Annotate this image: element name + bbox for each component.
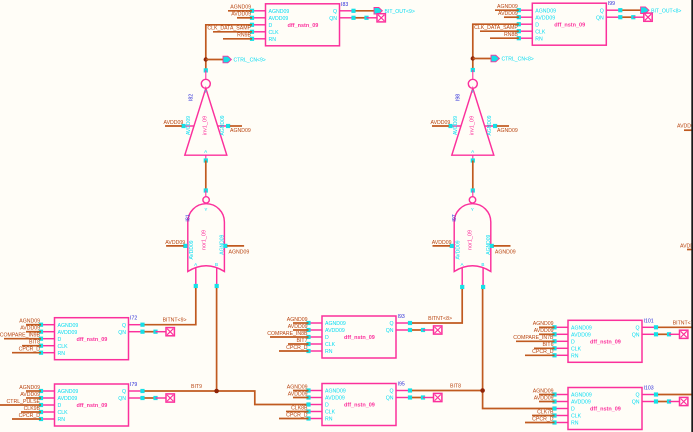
svg-text:BIT7: BIT7 [297, 338, 308, 344]
svg-text:AVDD09: AVDD09 [269, 16, 289, 22]
svg-text:AGND09: AGND09 [287, 317, 308, 323]
svg-text:AGND09: AGND09 [19, 319, 40, 325]
svg-text:RN: RN [58, 417, 66, 423]
flip-flop I99 (dff_nstn_09) [519, 3, 621, 45]
power pin AVDD09 of NOR I81 [165, 240, 187, 248]
flip-flop I93 (dff_nstn_09) [309, 316, 411, 358]
wire stub net COMPARE_IN9B to I72 pin D [0, 333, 41, 339]
wire stub net RN8B to I99 pin RN [490, 32, 519, 38]
wire stub net CTRL_PULSE to I79 pin D [0, 399, 41, 405]
wire stub net AGND09 to I99 pin AGND09 [495, 4, 519, 10]
wire stub net AVDD09 to I101 pin AVDD09 [534, 328, 555, 334]
svg-text:AVDD09: AVDD09 [288, 391, 308, 397]
NOR gate I97 (nor1_09) [452, 197, 492, 286]
pin BIT_OUT<8> (output pin) [641, 7, 682, 14]
svg-text:Q: Q [333, 9, 337, 15]
svg-text:Y: Y [204, 207, 207, 212]
wire stub net AVDD09 to I99 pin AVDD09 [498, 11, 519, 17]
wire net BIT7: I103.Q toward off-canvas [658, 394, 693, 396]
noConn symbol on I72 QN [145, 328, 175, 336]
svg-text:QN: QN [386, 328, 394, 334]
svg-text:AVDD09: AVDD09 [231, 12, 251, 18]
svg-text:dff_nstn_09: dff_nstn_09 [590, 340, 621, 346]
svg-text:I83: I83 [341, 2, 348, 8]
svg-text:CLK: CLK [325, 342, 336, 348]
svg-text:AVDD09: AVDD09 [20, 392, 40, 398]
svg-text:AGND09: AGND09 [220, 115, 226, 135]
svg-text:Y: Y [471, 89, 474, 94]
wire stub net CLK8B to I95 pin CLK [286, 405, 309, 411]
svg-text:AVDD09: AVDD09 [534, 328, 554, 334]
svg-text:BIT6: BIT6 [543, 342, 554, 348]
pin squares of I103 [552, 392, 658, 424]
flip-flop I103 (dff_nstn_09) [555, 388, 657, 430]
svg-text:AVDD09: AVDD09 [677, 124, 693, 130]
svg-text:AVDD09: AVDD09 [534, 395, 554, 401]
svg-text:AGND09: AGND09 [325, 389, 346, 395]
instance label I101 [644, 318, 654, 324]
svg-text:I93: I93 [398, 314, 405, 320]
svg-text:CLK: CLK [325, 410, 336, 416]
wire net CTRL_CN<8>: I99.D down to inverter I98 input [473, 24, 519, 70]
svg-text:I81: I81 [186, 214, 192, 221]
wire stub net BIT8 to I72 pin CLK [22, 340, 41, 346]
pin squares NOR I81 inputs [194, 284, 219, 288]
wire stub net CPCR_D to I101 pin RN [525, 349, 555, 355]
svg-text:CLK_DATA_SAMP: CLK_DATA_SAMP [207, 26, 251, 32]
junction node BIT9 [214, 389, 219, 394]
wire stub net RN9B to I83 pin RN [223, 33, 252, 39]
svg-text:RN: RN [325, 349, 333, 355]
svg-text:Q: Q [389, 389, 393, 395]
wire stub net CPCR_D to I72 pin RN [12, 347, 41, 353]
svg-text:I82: I82 [188, 94, 194, 101]
wire I99.Q to output pin BIT_OUT<8> [622, 9, 640, 11]
pin CTRL_CN<8> (output pin) [473, 55, 534, 63]
svg-text:BIT8: BIT8 [450, 383, 461, 389]
power pin AVDD09 of inverter I98 [431, 120, 453, 128]
svg-text:AVDD09: AVDD09 [20, 326, 40, 332]
svg-text:AVDD09: AVDD09 [455, 240, 461, 259]
power pin AVDD09 of NOR I97 [432, 240, 454, 248]
pin CTRL_CN<9> (output pin) [206, 56, 266, 64]
wire stub net BIT6 to I101 pin CLK [534, 342, 555, 348]
svg-text:CLK7B: CLK7B [537, 409, 554, 415]
svg-text:nor1_09: nor1_09 [201, 230, 207, 250]
svg-text:nor1_09: nor1_09 [468, 230, 474, 250]
wire stub net COMPARE_IN7B to I101 pin D [513, 335, 554, 341]
svg-text:CPCR_D: CPCR_D [532, 349, 554, 355]
wire stub net AGND09 to I101 pin AGND09 [533, 321, 555, 327]
svg-text:dff_nstn_09: dff_nstn_09 [344, 403, 375, 409]
pin squares of I101 [552, 325, 658, 357]
pin squares of I95 [306, 388, 412, 420]
flip-flop I79 (dff_nstn_09) [41, 384, 143, 426]
svg-text:dff_nstn_09: dff_nstn_09 [590, 407, 621, 413]
svg-text:RN9B: RN9B [237, 33, 251, 39]
inverter I82 (inv1_09) [184, 79, 229, 155]
svg-text:BIT_OUT<9>: BIT_OUT<9> [385, 9, 415, 15]
wire stub net AGND09 to I95 pin AGND09 [287, 384, 309, 390]
junction node BIT8 [480, 388, 485, 393]
svg-text:I101: I101 [644, 318, 654, 324]
flip-flop I83 (dff_nstn_09) [252, 4, 354, 46]
noConn symbol on I103 QN [658, 397, 688, 405]
svg-text:RN: RN [325, 417, 333, 423]
svg-text:AGND09: AGND09 [58, 389, 79, 395]
svg-text:RN: RN [571, 421, 579, 427]
power pin AGND09 of inverter I98 [493, 124, 518, 134]
svg-text:AVDD09: AVDD09 [498, 11, 518, 17]
pin squares of I99 [517, 8, 623, 40]
svg-text:CPCR_D: CPCR_D [286, 412, 308, 418]
wire stub net BIT7 to I93 pin CLK [288, 338, 309, 344]
noConn symbol on I83 QN [356, 14, 386, 22]
svg-text:RN: RN [535, 36, 543, 42]
wire net BIT9: I79.Q to NOR I81 input B and to I95.D [145, 288, 309, 405]
junction node CTRL_CN<9> [204, 57, 208, 61]
instance label I72 [130, 316, 137, 322]
flip-flop I95 (dff_nstn_09) [309, 384, 411, 426]
power pin AVDD09 of off-canvas NOR (cut at right edge) [680, 244, 693, 250]
svg-text:AVDD09: AVDD09 [571, 400, 591, 406]
pin squares NOR I97 inputs [460, 285, 485, 289]
noConn symbol on I93 QN [412, 326, 442, 334]
flip-flop I72 (dff_nstn_09) [41, 318, 143, 360]
instance label I81 [186, 214, 192, 221]
svg-text:AGND09: AGND09 [230, 5, 251, 11]
power pin AGND09 of NOR I81 [223, 244, 249, 256]
svg-text:AVDD09: AVDD09 [453, 116, 459, 135]
svg-text:AGND09: AGND09 [229, 250, 250, 256]
svg-text:AGND09: AGND09 [497, 128, 518, 134]
svg-text:AVDD09: AVDD09 [58, 330, 78, 336]
noConn symbol on I79 QN [145, 394, 175, 402]
wire stub net AGND09 to I103 pin AGND09 [533, 388, 555, 394]
svg-text:AVDD09: AVDD09 [432, 240, 452, 246]
svg-text:B: B [481, 262, 484, 267]
svg-text:I103: I103 [644, 386, 654, 392]
inverter I98 (inv1_09) [451, 79, 496, 155]
svg-text:QN: QN [386, 396, 394, 402]
svg-text:CLK: CLK [58, 344, 69, 350]
pin BIT_OUT<9> (output pin) [374, 8, 415, 16]
svg-text:BITNT<8>: BITNT<8> [428, 316, 452, 322]
svg-text:QN: QN [118, 330, 126, 336]
svg-text:AVDD09: AVDD09 [189, 240, 195, 259]
window edge [691, 0, 693, 432]
svg-text:dff_nstn_09: dff_nstn_09 [288, 23, 319, 29]
instance label I79 [130, 382, 137, 388]
svg-text:CTRL_CN<8>: CTRL_CN<8> [502, 57, 534, 63]
pin squares of I83 [250, 9, 356, 41]
svg-text:BIT9: BIT9 [191, 384, 202, 390]
svg-text:I97: I97 [452, 214, 458, 221]
svg-text:AVDD09: AVDD09 [325, 328, 345, 334]
svg-text:QN: QN [596, 15, 604, 21]
svg-text:AGND09: AGND09 [325, 321, 346, 327]
wire net BITNT<8>: I93.Q up to NOR I97 input A [412, 289, 462, 323]
svg-text:D: D [269, 23, 273, 29]
svg-text:AGND09: AGND09 [571, 326, 592, 332]
svg-text:AGND09: AGND09 [571, 393, 592, 399]
svg-text:AVDD09: AVDD09 [571, 333, 591, 339]
svg-text:AGND09: AGND09 [230, 128, 251, 134]
wire net CTRL_CN<9>: I83.D down to inverter I82 input [206, 25, 252, 71]
svg-text:COMPARE_IN7B: COMPARE_IN7B [513, 335, 554, 341]
svg-text:RN8B: RN8B [504, 32, 518, 38]
junction node CTRL_CN<8> [471, 56, 475, 60]
wire stub net CLK7B to I103 pin CLK [532, 409, 555, 415]
svg-text:D: D [58, 403, 62, 409]
svg-text:BIT8: BIT8 [29, 340, 40, 346]
svg-text:RN: RN [58, 351, 66, 357]
svg-text:Q: Q [389, 321, 393, 327]
svg-text:AGND09: AGND09 [535, 8, 556, 14]
svg-text:CTRL_CN<9>: CTRL_CN<9> [234, 58, 266, 64]
svg-text:D: D [571, 340, 575, 346]
svg-text:dff_nstn_09: dff_nstn_09 [77, 403, 108, 409]
svg-text:I72: I72 [130, 316, 137, 322]
svg-text:AGND09: AGND09 [495, 250, 516, 256]
wire net BITNT<7>: I101.Q toward NOR off-canvas [658, 320, 693, 327]
power pin AVDD09 of off-canvas inverter (cut at right edge) [677, 124, 693, 131]
NOR gate I81 (nor1_09) [185, 197, 225, 286]
svg-text:Q: Q [122, 389, 126, 395]
svg-text:BITNT<7>: BITNT<7> [673, 320, 693, 326]
wire stub net CPCR_D to I93 pin RN [279, 345, 309, 351]
svg-text:D: D [58, 337, 62, 343]
wire stub net AGND09 to I72 pin AGND09 [19, 319, 41, 325]
svg-text:inv1_09: inv1_09 [202, 116, 208, 135]
svg-text:I79: I79 [130, 382, 137, 388]
svg-text:D: D [325, 403, 329, 409]
noConn symbol on I99 QN [622, 13, 652, 21]
pin squares of I72 [39, 323, 145, 355]
wire stub net AVDD09 to I79 pin AVDD09 [20, 392, 41, 398]
wire stub net AVDD09 to I95 pin AVDD09 [288, 391, 309, 397]
svg-text:D: D [535, 22, 539, 28]
svg-text:dff_nstn_09: dff_nstn_09 [77, 337, 108, 343]
svg-text:CLK: CLK [58, 410, 69, 416]
svg-text:QN: QN [118, 396, 126, 402]
svg-text:AVDD09: AVDD09 [58, 396, 78, 402]
wire net BIT8: I95.Q to NOR I97 input B and to I103.D [412, 289, 555, 409]
svg-text:CLK8B: CLK8B [291, 405, 308, 411]
instance label I82 [188, 94, 194, 101]
wire stub net AVDD09 to I83 pin AVDD09 [231, 12, 252, 18]
svg-text:Y: Y [471, 207, 474, 212]
svg-text:AVDD09: AVDD09 [164, 120, 184, 126]
wire stub net AGND09 to I79 pin AGND09 [19, 385, 41, 391]
wire inverter I98 output to NOR I97 [471, 155, 475, 197]
svg-text:Q: Q [635, 326, 639, 332]
svg-text:Q: Q [635, 393, 639, 399]
wire stub net AGND09 to I83 pin AGND09 [228, 5, 252, 11]
svg-text:QN: QN [632, 400, 640, 406]
svg-text:I98: I98 [455, 94, 461, 101]
svg-text:CPCR_D: CPCR_D [286, 345, 308, 351]
pin square inverter I82 output wire [204, 68, 208, 72]
power pin AGND09 of inverter I82 [226, 124, 251, 134]
svg-text:COMPARE_IN8B: COMPARE_IN8B [267, 331, 308, 337]
wire stub net AVDD09 to I93 pin AVDD09 [288, 324, 309, 330]
svg-text:dff_nstn_09: dff_nstn_09 [554, 22, 585, 28]
svg-text:D: D [325, 335, 329, 341]
svg-text:AVDD09: AVDD09 [680, 244, 693, 250]
svg-text:AGND09: AGND09 [487, 115, 493, 135]
svg-text:CTRL_PULSE: CTRL_PULSE [7, 399, 41, 405]
instance label I83 [341, 2, 348, 8]
svg-text:CPCR_D: CPCR_D [19, 347, 41, 353]
svg-text:AGND09: AGND09 [269, 9, 290, 15]
svg-text:AVDD09: AVDD09 [165, 240, 185, 246]
wire stub net AVDD09 to I72 pin AVDD09 [20, 326, 41, 332]
wire stub net AVDD09 to I103 pin AVDD09 [534, 395, 555, 401]
svg-text:I95: I95 [398, 382, 405, 388]
wire stub net CLK_DATA_SAMP to I83 pin CLK [207, 26, 252, 32]
pin square inverter I98 output wire [471, 68, 475, 72]
svg-text:AVDD09: AVDD09 [431, 120, 451, 126]
pin squares of I79 [39, 389, 145, 421]
svg-text:RN: RN [269, 37, 277, 43]
svg-text:AGND09: AGND09 [287, 384, 308, 390]
svg-text:BITNT<9>: BITNT<9> [163, 318, 187, 324]
svg-text:AVDD09: AVDD09 [325, 396, 345, 402]
wire stub net CLK_DATA_SAMP to I99 pin CLK [474, 25, 519, 31]
wire stub net CPCR_D to I95 pin RN [279, 412, 309, 418]
power pin AGND09 of NOR I97 [490, 244, 516, 256]
svg-text:I99: I99 [608, 1, 615, 7]
svg-text:RN: RN [571, 354, 579, 360]
svg-text:CLK: CLK [571, 414, 582, 420]
svg-text:AGND09: AGND09 [533, 321, 554, 327]
wire stub net CPCR_D to I79 pin RN [12, 413, 41, 419]
svg-text:inv1_09: inv1_09 [469, 116, 475, 135]
svg-text:D: D [571, 407, 575, 413]
wire inverter I82 output to NOR I81 [204, 155, 208, 197]
svg-text:QN: QN [632, 333, 640, 339]
power pin AVDD09 of inverter I82 [164, 120, 186, 128]
wire stub junction to inverter I98 bubble [472, 70, 474, 79]
svg-text:COMPARE_IN9B: COMPARE_IN9B [0, 333, 41, 339]
wire net BIT8 rail to I103.D [0, 0, 1, 1]
flip-flop I101 (dff_nstn_09) [555, 320, 657, 362]
svg-text:AGND09: AGND09 [533, 388, 554, 394]
svg-text:CLK: CLK [571, 347, 582, 353]
svg-text:QN: QN [329, 16, 337, 22]
wire I83.Q to output pin BIT_OUT<9> [356, 10, 375, 12]
instance label I97 [452, 214, 458, 221]
svg-text:AVDD09: AVDD09 [288, 324, 308, 330]
noConn symbol on I101 QN [658, 330, 688, 338]
wire stub net COMPARE_IN8B to I93 pin D [267, 331, 308, 337]
noConn symbol on I95 QN [412, 393, 442, 401]
wire stub net CPCR_D to I103 pin RN [525, 416, 555, 422]
pin squares of I93 [306, 321, 412, 353]
svg-text:AGND09: AGND09 [497, 4, 518, 10]
instance label I93 [398, 314, 405, 320]
svg-text:B: B [215, 262, 218, 267]
svg-text:dff_nstn_09: dff_nstn_09 [344, 335, 375, 341]
wire stub net AGND09 to I93 pin AGND09 [287, 317, 309, 323]
svg-text:AVDD09: AVDD09 [186, 116, 192, 135]
instance label I103 [644, 386, 654, 392]
svg-text:Q: Q [600, 8, 604, 14]
wire net BITNT<9>: I72.Q up to NOR I81 input A [145, 288, 196, 325]
instance label I98 [455, 94, 461, 101]
svg-text:AGND09: AGND09 [19, 385, 40, 391]
svg-text:CLK: CLK [269, 30, 280, 36]
svg-text:CPCR_D: CPCR_D [19, 413, 41, 419]
svg-text:BIT_OUT<8>: BIT_OUT<8> [651, 8, 681, 14]
wire stub junction to inverter bubble [205, 70, 207, 79]
svg-text:CPCR_D: CPCR_D [532, 416, 554, 422]
svg-text:AGND09: AGND09 [58, 323, 79, 329]
svg-text:Q: Q [122, 323, 126, 329]
svg-text:Y: Y [204, 89, 207, 94]
wire stub net CLK9B to I79 pin CLK [21, 406, 41, 412]
svg-text:CLK: CLK [535, 29, 546, 35]
svg-text:CLK9B: CLK9B [24, 406, 41, 412]
instance label I99 [608, 1, 615, 7]
instance label I95 [398, 382, 405, 388]
svg-text:AVDD09: AVDD09 [535, 15, 555, 21]
svg-text:CLK_DATA_SAMP: CLK_DATA_SAMP [474, 25, 518, 31]
